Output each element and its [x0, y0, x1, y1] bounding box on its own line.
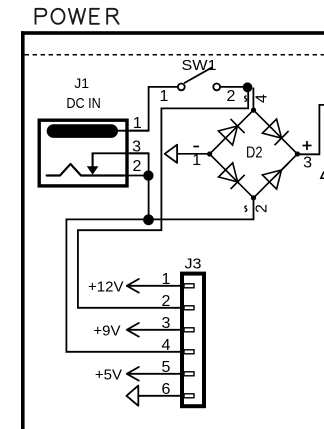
- svg-text:4: 4: [162, 337, 171, 354]
- wire J3 pin1: [127, 285, 181, 287]
- sheet frame left border: [21, 31, 25, 429]
- unconnected flag at D2 pin 1: [165, 145, 177, 163]
- SW1 pin 2 contact circle: [213, 84, 220, 91]
- J3 pin 1 stub: [184, 284, 194, 288]
- J1 switch-contact arrow stem: [92, 153, 94, 167]
- J1 pin 2 line: [124, 175, 149, 177]
- D2 left corner pin dot: [207, 151, 212, 156]
- wire J1 pin3/pin2 to bottom net: [130, 153, 149, 219]
- junction dot J1 pin2 node: [143, 170, 153, 180]
- D2 diode top-left (anode pin1 side, cathode to pin4): [218, 119, 244, 145]
- J3 pin 2 stub: [184, 306, 194, 310]
- svg-text:D2: D2: [246, 145, 263, 162]
- wire J3 pin5: [127, 373, 181, 375]
- D2 diode bottom-left (anode pin1 side, cathode to pin2): [219, 163, 245, 189]
- connector J1 body box: [39, 120, 127, 186]
- J3 pin 5 stub: [184, 372, 194, 376]
- svg-text:1: 1: [160, 88, 169, 105]
- J1 pin 3 line: [92, 152, 149, 154]
- net arrow +5V: [127, 367, 139, 381]
- unconnected flag at J3 pin 6: [127, 386, 139, 406]
- dashed separator line: [25, 54, 324, 56]
- D2 pin 1 minus sign: [193, 146, 199, 148]
- svg-text:+9V: +9V: [93, 322, 120, 339]
- svg-text:+5V: +5V: [95, 366, 122, 383]
- net arrow +12V: [127, 279, 139, 293]
- svg-text:2: 2: [133, 158, 142, 175]
- svg-text:4: 4: [254, 94, 271, 103]
- D2 top corner pin dot: [251, 108, 256, 113]
- svg-text:DC IN: DC IN: [66, 96, 101, 112]
- J1 barrel pin bar: [47, 124, 118, 138]
- D2 pin 4 AC squiggle (top): [245, 96, 247, 101]
- wire flag to D2 pin1: [177, 153, 210, 155]
- title POWER: [36, 9, 119, 24]
- SW1 lever: [185, 68, 212, 83]
- wire node to D2 pin4 (top corner): [252, 88, 254, 110]
- svg-text:2: 2: [254, 204, 271, 213]
- D2 pin 3 plus sign: [303, 141, 312, 150]
- junction dot SW1/D2 node: [243, 82, 253, 92]
- wire SW1 pin2 to node: [220, 86, 249, 88]
- wire J1 pin1 to SW1 pin1: [130, 87, 178, 131]
- D2 diode bottom-right (anode pin2 side, cathode to pin3): [262, 163, 288, 189]
- J3 pin 6 stub: [184, 394, 194, 398]
- D2 diode top-right (anode pin4 side, cathode to pin3): [262, 119, 288, 145]
- SW1 pin 1 contact circle: [178, 84, 185, 91]
- wire D2 pin3 to right edge: [297, 105, 324, 154]
- wire node down-left to J3 pin2: [78, 89, 248, 308]
- J3 pin 3 stub: [184, 328, 194, 332]
- svg-text:+12V: +12V: [88, 278, 123, 295]
- svg-text:J1: J1: [74, 75, 89, 91]
- bridge rectifier D2 diamond outline: [210, 110, 298, 198]
- net arrow +9V: [127, 323, 139, 337]
- svg-text:3: 3: [303, 155, 312, 172]
- wire D2 pin2 (bottom) to J3 pin4: [66, 198, 253, 352]
- D2 pin 2 AC squiggle (bottom): [245, 206, 247, 211]
- junction dot bottom net node: [143, 214, 154, 225]
- J1 pin 1 line: [116, 130, 149, 132]
- D2 right corner pin dot: [295, 151, 300, 156]
- svg-text:1: 1: [133, 115, 142, 132]
- svg-text:J3: J3: [185, 256, 202, 273]
- svg-text:2: 2: [226, 88, 235, 105]
- J1 sleeve zigzag contact: [47, 164, 124, 176]
- svg-text:2: 2: [162, 293, 171, 310]
- J3 pin 4 stub: [184, 350, 194, 354]
- sheet frame top border: [21, 31, 324, 35]
- J1 switch-contact arrowhead: [87, 166, 99, 174]
- connector J3 body box: [182, 274, 204, 407]
- partial glyph at right edge: [321, 172, 324, 179]
- svg-text:SW1: SW1: [182, 57, 217, 74]
- wire J3 pin3: [127, 329, 181, 331]
- wire J3 pin6: [139, 395, 181, 397]
- D2 bottom corner pin dot: [251, 195, 256, 200]
